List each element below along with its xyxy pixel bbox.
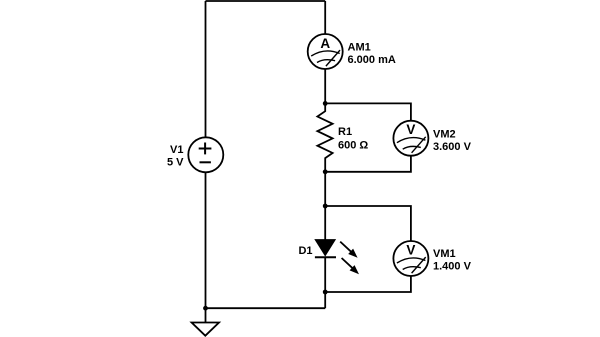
node B junction dot (R1 bottom / VM2) bbox=[323, 169, 328, 174]
D1 cathode bar bbox=[315, 256, 336, 258]
svg-text:D1: D1 bbox=[298, 245, 312, 257]
wire node D to bottom wire bbox=[324, 292, 326, 308]
wire right rail top into AM1 bbox=[324, 1, 326, 34]
LED light arrow 2 bbox=[342, 258, 359, 274]
voltage source V1 5 V bbox=[188, 137, 223, 172]
wire node C to VM1 top bbox=[325, 206, 411, 241]
wire left rail upper (top wire to V1) bbox=[205, 1, 207, 137]
svg-text:A: A bbox=[320, 36, 330, 51]
svg-text:V1: V1 bbox=[170, 144, 183, 156]
svg-text:600 Ω: 600 Ω bbox=[338, 140, 368, 152]
svg-text:1.400 V: 1.400 V bbox=[433, 261, 472, 273]
svg-text:VM1: VM1 bbox=[433, 248, 456, 260]
svg-text:V: V bbox=[406, 242, 415, 257]
ammeter AM1 bbox=[308, 34, 343, 69]
svg-text:5 V: 5 V bbox=[167, 156, 184, 168]
D1 anode triangle bbox=[316, 240, 335, 255]
wire top horizontal (V1 top to AM1 top) bbox=[206, 0, 326, 2]
resistor R1 600 ohm bbox=[317, 103, 332, 171]
voltmeter VM1 bbox=[393, 241, 428, 276]
LED light arrow 1 bbox=[340, 242, 357, 258]
wire left rail lower (V1 to bottom wire) bbox=[205, 172, 207, 308]
voltmeter VM2 bbox=[393, 121, 428, 156]
node junction dot (ground / V1 / bottom wire) bbox=[203, 306, 208, 311]
svg-text:R1: R1 bbox=[338, 126, 352, 138]
LED D1 bbox=[315, 206, 359, 292]
wire node C to D1 anode bbox=[324, 206, 326, 240]
svg-text:V: V bbox=[406, 122, 415, 137]
node D junction dot (D1 bottom / VM1) bbox=[323, 290, 328, 295]
wire AM1 to node A bbox=[324, 69, 326, 103]
svg-text:6.000 mA: 6.000 mA bbox=[348, 54, 396, 66]
wire bottom horizontal bbox=[206, 307, 326, 309]
wire D1 cathode to node D bbox=[324, 257, 326, 292]
wire VM1 bottom to node D bbox=[325, 276, 411, 292]
wire node B to node C bbox=[324, 172, 326, 206]
svg-text:AM1: AM1 bbox=[348, 42, 371, 54]
wire node A to VM2 top bbox=[325, 103, 411, 120]
ground bbox=[192, 308, 219, 336]
svg-text:VM2: VM2 bbox=[433, 128, 456, 140]
wire VM2 bottom to node B bbox=[325, 156, 411, 172]
node A junction dot (R1 top / VM2) bbox=[323, 101, 328, 106]
node C junction dot (D1 top / VM1) bbox=[323, 204, 328, 209]
svg-text:3.600 V: 3.600 V bbox=[433, 141, 472, 153]
